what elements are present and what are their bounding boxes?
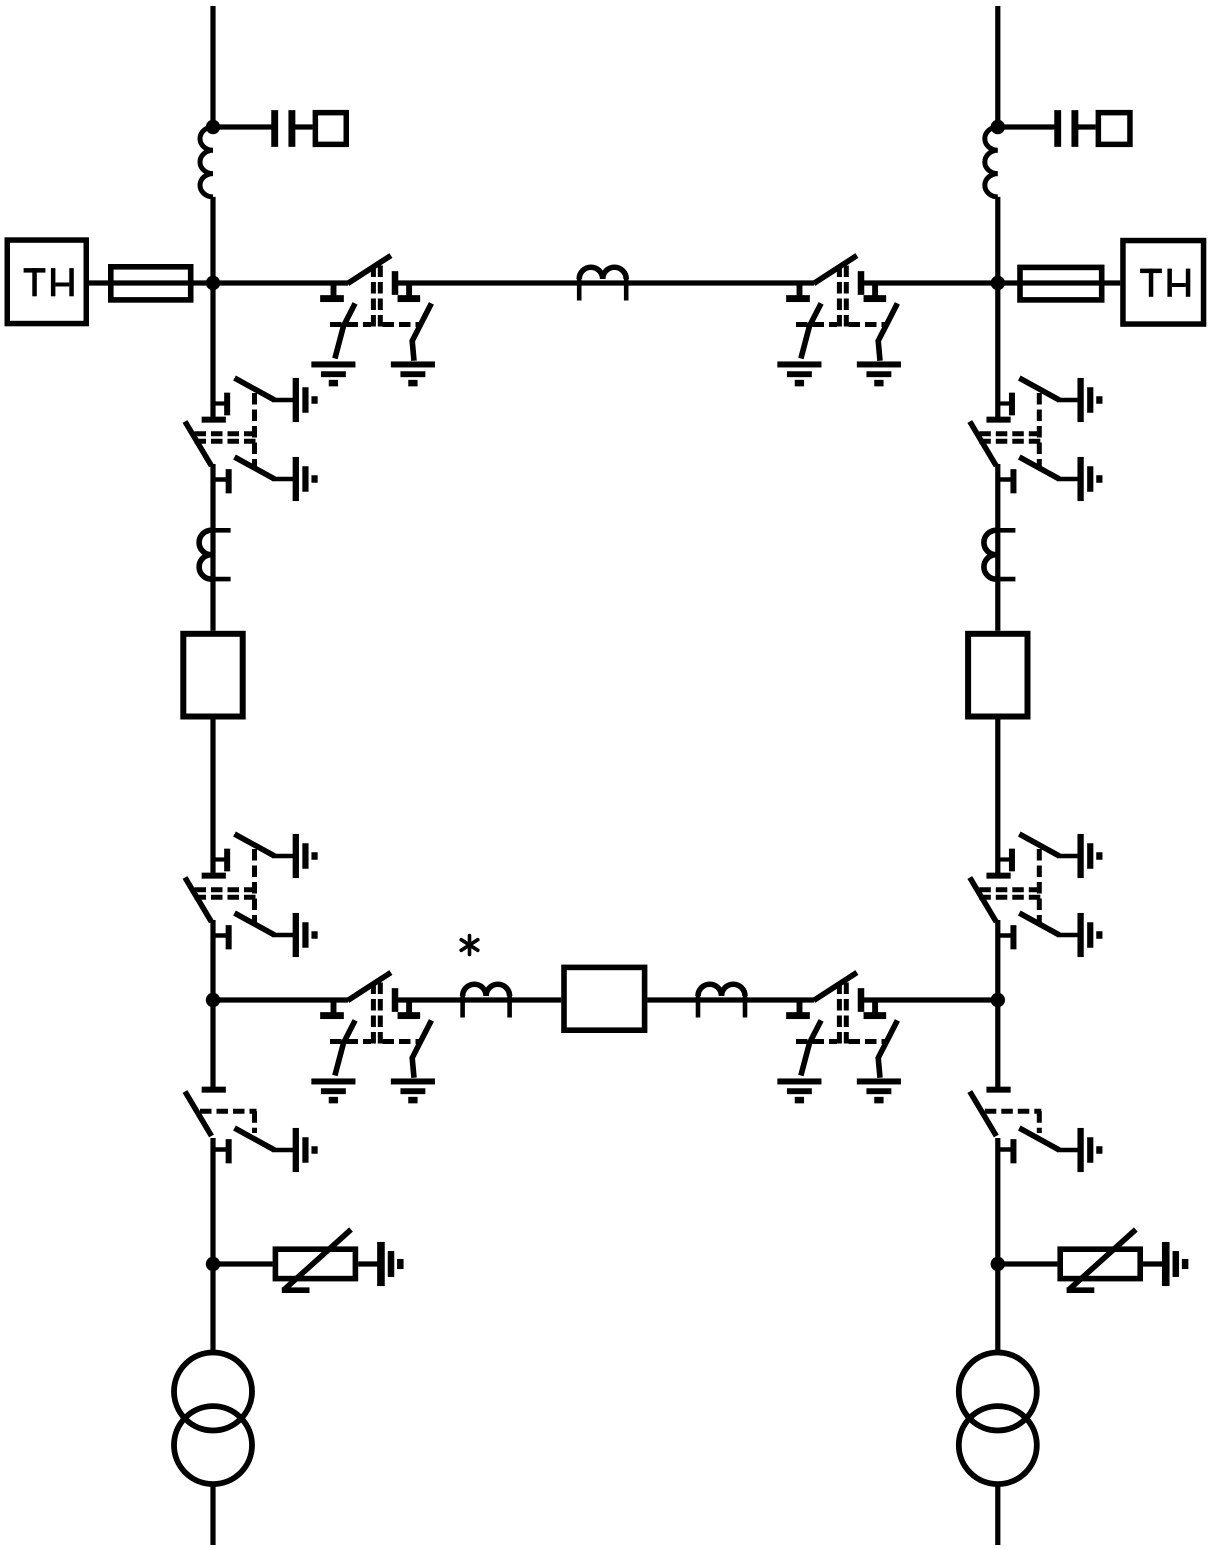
label: TH (right) bbox=[1140, 269, 1190, 297]
top tie left disconnector left earth (ground) bbox=[311, 361, 355, 386]
wire: lower tie right switch to right bus bbox=[864, 997, 998, 1002]
current transformer: left feeder CT bbox=[199, 530, 231, 579]
lower tie left disconnector right earthing switch bbox=[412, 1020, 431, 1077]
wire: right arrester to earth bbox=[1143, 1261, 1162, 1266]
top tie right disconnector left earth (ground) bbox=[777, 361, 821, 386]
wire: left bus from top edge bbox=[210, 6, 215, 127]
disconnector QS4 blade bbox=[970, 422, 997, 467]
wire: right bus from top edge bbox=[995, 6, 1000, 127]
disconnector QS2 upper fixed contact bbox=[213, 849, 230, 872]
transformer T1 (two windings) bbox=[174, 1353, 252, 1485]
disconnector QS6 earthing switch with earth bbox=[1019, 1128, 1102, 1172]
top tie left disconnector left earthing switch bbox=[335, 303, 355, 358]
top tie right disconnector right contact T bbox=[864, 284, 887, 302]
label: * (measuring CT mark) bbox=[461, 936, 478, 955]
wire: lower tie left switch to box bbox=[398, 997, 561, 1002]
disconnector QS3 blade bbox=[185, 1092, 212, 1137]
lower tie left disconnector linkage (dashed) bbox=[330, 983, 421, 1044]
wire: left TH to bus bbox=[89, 280, 213, 285]
current transformer: lower tie right CT bbox=[698, 984, 745, 1017]
wire: right bus QS5 to lower tie bbox=[995, 920, 1000, 1000]
top tie left disconnector blade bbox=[348, 256, 391, 284]
lower tie right disconnector blade bbox=[814, 973, 857, 1001]
top tie right disconnector left contact T bbox=[786, 283, 810, 302]
wire: left bus QS2 to lower tie bbox=[210, 920, 215, 1000]
wire: left bus QS3 to arrester tap bbox=[210, 1138, 215, 1264]
wire: bus to left arrester bbox=[213, 1261, 273, 1266]
box: left coupling device bbox=[315, 113, 346, 145]
top tie left disconnector linkage (dashed) bbox=[330, 266, 421, 327]
current transformer: top tie CT bbox=[579, 267, 626, 300]
capacitor: right coupling capacitor bbox=[1054, 110, 1078, 147]
wire: right bus breaker to disconnector QS5 bbox=[995, 720, 1000, 874]
disconnector QS4 linkage (dashed) bbox=[979, 393, 1041, 469]
wire: right bus QS6 to arrester tap bbox=[995, 1138, 1000, 1264]
wire: left bus to disconnector QS3 bbox=[210, 1000, 215, 1087]
junction: left bus / lower tie bbox=[206, 993, 220, 1007]
disconnector QS1 bottom fixed contact bbox=[211, 469, 232, 493]
disconnector QS5 blade bbox=[970, 878, 997, 923]
lower tie left disconnector blade bbox=[348, 973, 391, 1001]
disconnector QS6 linkage (dashed) bbox=[985, 1111, 1042, 1133]
box: lower tie coupling device bbox=[564, 967, 645, 1030]
wire: right bus to disconnector QS4 bbox=[995, 283, 1000, 417]
junction: left bus / coupling branch bbox=[206, 120, 220, 134]
lower tie right disconnector left contact T bbox=[786, 1000, 810, 1019]
disconnector QS1 upper fixed contact bbox=[213, 393, 230, 416]
disconnector QS2 blade bbox=[185, 878, 212, 923]
inductor: right line reactor bbox=[985, 127, 998, 197]
disconnector QS3 earthing switch with earth bbox=[235, 1128, 318, 1172]
disconnector QS3 linkage (dashed) bbox=[200, 1111, 257, 1133]
wire: left bus QS1 to CT bbox=[210, 464, 215, 631]
wire: right coupling branch bbox=[998, 124, 1055, 129]
disconnector QS5 upper fixed contact bbox=[998, 849, 1015, 872]
top tie right disconnector linkage (dashed) bbox=[796, 266, 887, 327]
lower tie right disconnector left earth (ground) bbox=[777, 1078, 821, 1103]
wire: bus to right arrester bbox=[998, 1261, 1058, 1266]
disconnector QS4 lower earthing switch with earth bbox=[1019, 457, 1102, 501]
top tie right disconnector right contact bar bbox=[858, 271, 865, 295]
lower tie right disconnector left earthing switch bbox=[801, 1020, 821, 1075]
junction: left bus / TH branch / bus tie bbox=[206, 276, 220, 290]
disconnector QS2 bottom fixed contact bbox=[211, 925, 232, 949]
top tie left disconnector left contact T bbox=[320, 283, 344, 302]
disconnector QS3 top contact T-bar bbox=[202, 1087, 226, 1093]
disconnector QS2 linkage (dashed) bbox=[195, 849, 257, 925]
disconnector QS4 upper fixed contact bbox=[998, 393, 1015, 416]
wire: right bus QS4 to CT bbox=[995, 464, 1000, 631]
lower tie right disconnector right earth (ground) bbox=[857, 1078, 901, 1103]
junction: left arrester tap bbox=[206, 1257, 220, 1271]
disconnector QS2 lower earthing switch with earth bbox=[235, 913, 318, 957]
disconnector QS5 bottom fixed contact bbox=[996, 925, 1017, 949]
lower tie left disconnector left earth (ground) bbox=[311, 1078, 355, 1103]
earth: right arrester ground bbox=[1162, 1242, 1188, 1286]
wire: left bus arrester tap to transformer T1 bbox=[210, 1264, 215, 1353]
disconnector QS4 top contact T-bar bbox=[986, 417, 1010, 423]
wire: right bus to TH bbox=[998, 280, 1120, 285]
wire: left bus to disconnector QS1 bbox=[210, 283, 215, 417]
disconnector QS5 linkage (dashed) bbox=[979, 849, 1041, 925]
top tie right disconnector right earth (ground) bbox=[857, 361, 901, 386]
surge arrester left (varistor) bbox=[275, 1230, 355, 1291]
lower tie right disconnector linkage (dashed) bbox=[796, 983, 887, 1044]
top tie left disconnector right contact T bbox=[398, 284, 421, 302]
box: right line trap TH bbox=[1123, 241, 1204, 324]
lower tie left disconnector left contact T bbox=[320, 1000, 344, 1019]
wire: top tie left switch to right switch bbox=[398, 280, 814, 285]
transformer T2 (two windings) bbox=[959, 1353, 1037, 1485]
wire: capacitor to left box bbox=[295, 124, 313, 129]
disconnector QS5 lower earthing switch with earth bbox=[1019, 913, 1102, 957]
wire: right bus arrester tap to transformer T2 bbox=[995, 1264, 1000, 1353]
surge arrester right (varistor) bbox=[1060, 1230, 1140, 1291]
disconnector QS6 bottom fixed contact bbox=[996, 1139, 1017, 1163]
capacitor: left coupling capacitor bbox=[271, 110, 295, 147]
inductor: left line reactor bbox=[200, 127, 213, 197]
label: TH (left) bbox=[24, 268, 74, 296]
disconnector QS1 blade bbox=[185, 422, 212, 467]
fuse: left TH coupling filter bbox=[111, 267, 191, 300]
disconnector QS4 upper earthing switch with earth bbox=[1019, 378, 1102, 422]
top tie right disconnector right earthing switch bbox=[878, 303, 897, 360]
lower tie right disconnector right earthing switch bbox=[878, 1020, 897, 1077]
disconnector QS1 linkage (dashed) bbox=[195, 393, 257, 469]
disconnector QS6 top contact T-bar bbox=[986, 1087, 1010, 1093]
wire: lower tie box to right CT bbox=[647, 997, 814, 1002]
lower tie right disconnector right contact bar bbox=[858, 988, 865, 1012]
lower tie left disconnector right earth (ground) bbox=[391, 1078, 435, 1103]
wire: lower tie left bus to switch bbox=[213, 997, 348, 1002]
disconnector QS1 upper earthing switch with earth bbox=[235, 378, 318, 422]
current transformer: right feeder CT bbox=[984, 530, 1016, 579]
wire: top tie right switch to right bus bbox=[864, 280, 998, 285]
circuit breaker: left feeder bbox=[183, 634, 242, 717]
disconnector QS2 top contact T-bar bbox=[202, 873, 226, 879]
lower tie left disconnector right contact bar bbox=[392, 988, 399, 1012]
wire: left coupling branch bbox=[213, 124, 272, 129]
lower tie right disconnector right contact T bbox=[864, 1001, 887, 1019]
wire: top tie left bus to switch bbox=[213, 280, 348, 285]
earth: left arrester ground bbox=[377, 1242, 403, 1286]
disconnector QS3 bottom fixed contact bbox=[211, 1139, 232, 1163]
junction: right arrester tap bbox=[991, 1257, 1005, 1271]
junction: right bus / TH branch / bus tie bbox=[991, 276, 1005, 290]
wire: left bus reactor to TH tap bbox=[210, 197, 215, 283]
disconnector QS6 blade bbox=[970, 1092, 997, 1137]
box: left line trap TH bbox=[7, 240, 86, 323]
top tie left disconnector right earthing switch bbox=[412, 303, 431, 360]
disconnector QS1 lower earthing switch with earth bbox=[235, 457, 318, 501]
wire: capacitor to right box bbox=[1078, 124, 1096, 129]
wire: left arrester to earth bbox=[358, 1261, 377, 1266]
top tie left disconnector right contact bar bbox=[392, 271, 399, 295]
junction: right bus / coupling branch bbox=[991, 120, 1005, 134]
wire: right bus to disconnector QS6 bbox=[995, 1000, 1000, 1087]
wire: right transformer T2 tail bbox=[995, 1484, 1000, 1545]
box: right coupling device bbox=[1098, 113, 1130, 145]
current transformer: lower tie left CT bbox=[463, 984, 510, 1017]
junction: right bus / lower tie bbox=[991, 993, 1005, 1007]
disconnector QS2 upper earthing switch with earth bbox=[235, 834, 318, 878]
wire: right bus reactor to TH tap bbox=[995, 197, 1000, 283]
lower tie left disconnector left earthing switch bbox=[335, 1020, 355, 1075]
top tie right disconnector left earthing switch bbox=[801, 303, 821, 358]
top tie left disconnector right earth (ground) bbox=[391, 361, 435, 386]
disconnector QS4 bottom fixed contact bbox=[996, 469, 1017, 493]
fuse: right TH coupling filter bbox=[1020, 267, 1102, 300]
wire: left transformer T1 tail bbox=[210, 1484, 215, 1545]
disconnector QS5 upper earthing switch with earth bbox=[1019, 834, 1102, 878]
wire: left bus breaker to disconnector QS2 bbox=[210, 720, 215, 874]
circuit breaker: right feeder bbox=[968, 634, 1027, 717]
disconnector QS5 top contact T-bar bbox=[986, 873, 1010, 879]
lower tie left disconnector right contact T bbox=[398, 1001, 421, 1019]
disconnector QS1 top contact T-bar bbox=[202, 417, 226, 423]
top tie right disconnector blade bbox=[814, 256, 857, 284]
